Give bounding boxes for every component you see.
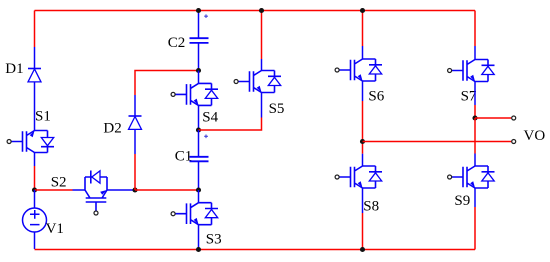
wire D1 to S1 (34, 82, 36, 131)
wire node E to S5 (199, 118, 262, 131)
svg-text:S3: S3 (206, 232, 222, 248)
wire S4 lower lead (198, 105, 200, 130)
svg-text:S4: S4 (202, 109, 218, 125)
svg-text:C2: C2 (168, 35, 186, 51)
wire D2 upper lead (134, 95, 136, 116)
wire node A to S2 (35, 189, 73, 191)
wire S1 to node A (34, 166, 36, 190)
svg-text:S8: S8 (363, 199, 379, 215)
node top rail S5 junction (259, 8, 264, 13)
wire S5 lower lead (261, 93, 263, 118)
IGBT S2 (85, 171, 107, 215)
capacitor C2 (190, 38, 209, 43)
wire C2 upper lead (198, 11, 200, 39)
wire S8 lower lead (362, 188, 364, 213)
wire D2 top corner (135, 71, 199, 96)
wire S6 upper lead (362, 46, 364, 59)
IGBT S5 (238, 71, 282, 93)
node I junction (360, 247, 365, 252)
wire S5 top (261, 11, 263, 60)
wire S9 lower lead (474, 188, 476, 207)
wire top-left drop to D1 (34, 11, 36, 48)
svg-text:S2: S2 (51, 174, 67, 190)
capacitor C1 (190, 157, 209, 162)
label C2 polarity plus (204, 14, 208, 18)
node D junction (196, 68, 201, 73)
svg-text:D2: D2 (103, 121, 121, 137)
wire S3 lower lead (198, 225, 200, 250)
node top rail C2 junction (196, 8, 201, 13)
diode D2 (129, 116, 142, 129)
node A junction (32, 187, 37, 192)
svg-text:VO: VO (524, 128, 546, 144)
wire S6 lower lead (362, 81, 364, 101)
wire S7 upper lead (474, 46, 476, 60)
wire S7 lower lead (474, 82, 476, 106)
IGBT S7 (451, 60, 495, 82)
IGBT S8 (339, 166, 383, 188)
wire S9 upper lead (474, 154, 476, 167)
wire S1 lower lead (34, 153, 36, 167)
wire S2 left lead (73, 189, 86, 191)
terminal VO lower (512, 140, 516, 144)
IGBT S9 (451, 166, 495, 188)
wire C1 upper lead (198, 130, 200, 157)
svg-text:V1: V1 (46, 221, 64, 237)
wire VO lower (363, 141, 512, 143)
svg-text:S5: S5 (269, 101, 285, 117)
node F junction (196, 187, 201, 192)
terminal VO upper (512, 116, 516, 120)
wire node J to S9 (474, 118, 476, 154)
wire D2 to node B (134, 154, 136, 190)
wire S8 upper lead (362, 154, 364, 166)
wire C1 lower lead (198, 161, 200, 190)
wire S7 top (474, 11, 476, 47)
wire D2 lower lead (134, 129, 136, 154)
wire V1 top lead (34, 190, 36, 208)
node B junction (132, 187, 137, 192)
wire VO upper (475, 117, 511, 119)
wire node B to node C1bot (135, 189, 199, 191)
wire S2 right lead (107, 189, 133, 191)
svg-text:D1: D1 (5, 61, 23, 77)
label C1 polarity plus (204, 135, 208, 139)
wire S4 upper lead (198, 71, 200, 84)
IGBT S3 (175, 203, 219, 225)
node G junction (196, 247, 201, 252)
IGBT S1 (11, 131, 55, 153)
svg-text:C1: C1 (175, 149, 193, 165)
wire bottom rail (35, 249, 476, 251)
wire V1 bottom lead (34, 232, 36, 249)
wire S8 to bottom rail (362, 213, 364, 250)
wire top rail (35, 10, 476, 12)
svg-text:S1: S1 (35, 109, 51, 125)
node top rail S6 junction (360, 8, 365, 13)
wire S5 upper lead (261, 59, 263, 71)
wire C2 lower lead (198, 43, 200, 71)
wire S6 to S8 (362, 101, 364, 154)
wire S7 to node J (474, 105, 476, 118)
wire S6 top (362, 11, 364, 47)
svg-text:S9: S9 (454, 193, 470, 209)
wire D1 upper lead (34, 47, 36, 69)
node H junction (360, 139, 365, 144)
IGBT S6 (339, 59, 383, 81)
wire S3 upper lead (198, 190, 200, 203)
diode D1 (28, 69, 41, 82)
source V1 (23, 208, 47, 232)
node E junction (196, 127, 201, 132)
IGBT S4 (175, 83, 219, 105)
svg-text:S6: S6 (368, 88, 384, 104)
wire S9 to bottom rail (474, 207, 476, 250)
node J junction (472, 115, 477, 120)
